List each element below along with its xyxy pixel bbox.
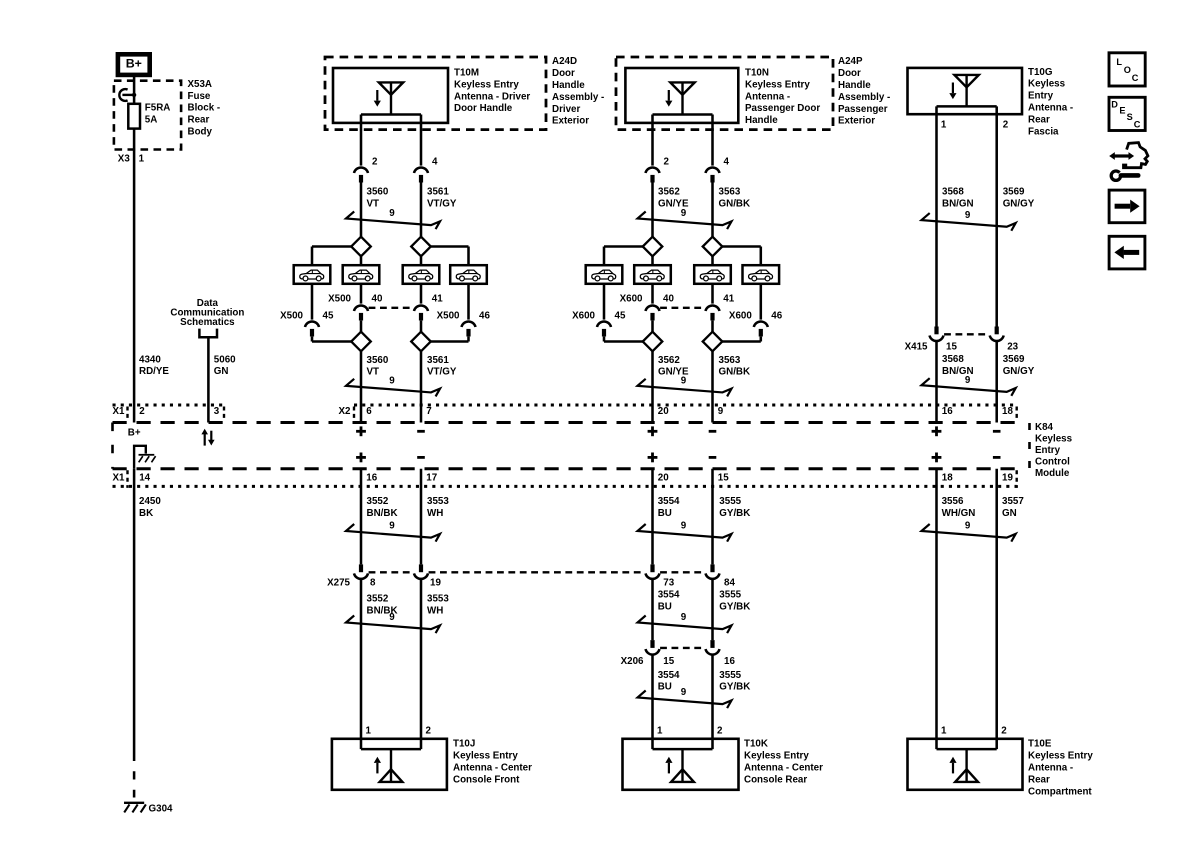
svg-text:X500: X500 <box>328 294 351 305</box>
terminal pin B <box>706 167 720 173</box>
dashed enclosure A24P door handle assembly passenger <box>616 57 833 130</box>
svg-text:GN/BK: GN/BK <box>719 367 751 378</box>
svg-text:9: 9 <box>965 375 971 386</box>
twisted pair mid 3554/3555 <box>638 616 732 634</box>
antenna box outline <box>625 68 738 123</box>
svg-text:4: 4 <box>432 157 438 168</box>
wire antenna pin A <box>360 115 363 166</box>
svg-text:GN/GY: GN/GY <box>1003 199 1035 210</box>
svg-text:X206: X206 <box>621 656 644 667</box>
svg-text:3553: 3553 <box>427 496 449 507</box>
svg-text:1: 1 <box>366 725 372 736</box>
svg-text:3560: 3560 <box>367 355 389 366</box>
module internal ground <box>134 446 146 469</box>
svg-text:Door Handle: Door Handle <box>454 103 513 114</box>
svg-text:WH: WH <box>427 606 443 617</box>
X415 pin 15 terminal <box>934 327 938 335</box>
X415 mate dashed link <box>944 333 989 335</box>
svg-text:46: 46 <box>479 311 490 322</box>
body style box 2 <box>343 265 380 284</box>
polarity labels band-2 <box>356 456 366 459</box>
T10K antenna box <box>623 739 739 790</box>
svg-text:F5RA: F5RA <box>145 103 171 114</box>
svg-text:Keyless Entry: Keyless Entry <box>744 751 809 762</box>
svg-text:84: 84 <box>724 577 735 588</box>
dashed enclosure A24D door handle assembly driver <box>325 57 546 130</box>
svg-text:Module: Module <box>1035 468 1070 479</box>
svg-text:9: 9 <box>718 406 724 417</box>
svg-text:3562: 3562 <box>658 186 680 197</box>
svg-text:T10K: T10K <box>744 739 768 750</box>
svg-text:3568: 3568 <box>942 187 964 198</box>
svg-text:19: 19 <box>430 577 441 588</box>
svg-text:X275: X275 <box>327 577 350 588</box>
T10J antenna symbol <box>390 749 392 782</box>
svg-text:X600: X600 <box>572 311 595 322</box>
inline connector X500 pin 40 <box>354 305 368 311</box>
variant splice diamond B bottom <box>411 332 431 352</box>
svg-text:Driver: Driver <box>552 104 581 115</box>
svg-text:4340: 4340 <box>139 354 161 365</box>
svg-text:Schematics: Schematics <box>180 317 235 328</box>
svg-text:VT: VT <box>367 367 380 378</box>
wires 3552/3553 from module <box>360 469 363 565</box>
wires to X206 <box>651 580 654 641</box>
twisted pair lower 3568/3569 <box>922 378 1016 396</box>
svg-text:40: 40 <box>372 294 383 305</box>
variant splice diamond A top <box>351 237 371 257</box>
svg-text:3562: 3562 <box>658 355 680 366</box>
connector mate dashed link <box>369 307 414 309</box>
svg-text:GN/BK: GN/BK <box>719 198 751 209</box>
K84 module connector band lower dotted <box>113 485 1017 488</box>
svg-text:2: 2 <box>1003 119 1009 130</box>
svg-text:X2: X2 <box>339 406 352 417</box>
svg-text:Entry: Entry <box>1028 91 1054 102</box>
svg-text:2: 2 <box>426 725 432 736</box>
svg-text:Console Rear: Console Rear <box>744 774 807 785</box>
svg-text:Antenna - Center: Antenna - Center <box>453 763 532 774</box>
svg-text:45: 45 <box>615 311 626 322</box>
fuse block X53A dashed box <box>114 81 181 150</box>
svg-text:X600: X600 <box>620 294 643 305</box>
T10E antenna symbol <box>965 749 967 782</box>
svg-text:T10E: T10E <box>1028 739 1052 750</box>
wrench icon <box>1111 169 1140 180</box>
K84 module left edge <box>111 423 114 469</box>
svg-text:9: 9 <box>389 521 395 532</box>
svg-text:Door: Door <box>552 68 575 79</box>
svg-text:8: 8 <box>370 577 376 588</box>
svg-text:T10N: T10N <box>745 68 769 79</box>
svg-text:GY/BK: GY/BK <box>719 682 750 693</box>
svg-text:2: 2 <box>664 157 670 168</box>
svg-text:Antenna -: Antenna - <box>745 91 790 102</box>
svg-text:BU: BU <box>658 508 672 519</box>
svg-text:BU: BU <box>658 602 672 613</box>
svg-text:VT: VT <box>367 198 380 209</box>
svg-text:3563: 3563 <box>719 186 741 197</box>
svg-text:T10G: T10G <box>1028 67 1053 78</box>
svg-text:B+: B+ <box>126 57 142 71</box>
inline connector X275 pin 19 <box>419 564 423 572</box>
T10E connector pocket <box>937 748 997 751</box>
twisted pair 3568/3569 <box>922 213 1016 231</box>
K84 module lower edge dashed <box>113 467 1017 470</box>
svg-text:3: 3 <box>214 406 220 417</box>
body style box 1 <box>586 265 623 284</box>
svg-text:D: D <box>1111 99 1118 109</box>
svg-text:Rear: Rear <box>1028 774 1050 785</box>
wire 2450 BK <box>133 469 136 761</box>
svg-text:3554: 3554 <box>658 590 680 601</box>
antenna box outline <box>908 68 1023 114</box>
svg-text:9: 9 <box>389 612 395 623</box>
svg-text:BN/BK: BN/BK <box>367 508 398 519</box>
svg-text:16: 16 <box>724 656 735 667</box>
wire B+ to fuse <box>133 75 136 104</box>
svg-text:Antenna -: Antenna - <box>1028 763 1073 774</box>
svg-text:GN/GY: GN/GY <box>1003 366 1035 377</box>
body style box 4 <box>450 265 487 284</box>
body style box 3 <box>403 265 440 284</box>
svg-text:Antenna -: Antenna - <box>1028 103 1073 114</box>
svg-text:A24P: A24P <box>838 56 863 67</box>
svg-text:4: 4 <box>724 157 730 168</box>
antenna connector pocket <box>361 113 421 116</box>
svg-text:L: L <box>1116 57 1122 67</box>
svg-text:WH/GN: WH/GN <box>942 508 976 519</box>
K84 label edge dashes <box>1028 423 1031 469</box>
svg-text:20: 20 <box>658 473 669 484</box>
connector mate dashed link <box>660 307 705 309</box>
svg-text:15: 15 <box>663 656 674 667</box>
svg-text:9: 9 <box>965 521 971 532</box>
polarity labels band-1 <box>356 430 366 433</box>
svg-text:14: 14 <box>139 473 150 484</box>
svg-text:G304: G304 <box>149 803 174 814</box>
antenna box outline <box>333 68 448 123</box>
K84 module connector band upper dotted <box>113 404 225 407</box>
svg-text:C: C <box>1134 119 1141 129</box>
antenna symbol <box>670 82 694 94</box>
svg-text:3555: 3555 <box>719 670 741 681</box>
svg-text:3560: 3560 <box>367 186 389 197</box>
svg-text:15: 15 <box>718 473 729 484</box>
svg-text:S: S <box>1127 112 1133 122</box>
svg-text:3561: 3561 <box>427 186 449 197</box>
wires to control module <box>360 351 363 422</box>
svg-text:9: 9 <box>681 612 687 623</box>
svg-text:Keyless Entry: Keyless Entry <box>454 79 519 90</box>
wires from X415 to module <box>935 342 938 423</box>
svg-text:Block -: Block - <box>188 103 221 114</box>
svg-text:3561: 3561 <box>427 355 449 366</box>
wire antenna pin B <box>711 115 714 166</box>
inline connector X275 pin 8 <box>359 564 363 572</box>
svg-text:3556: 3556 <box>942 496 964 507</box>
svg-text:E: E <box>1119 106 1125 116</box>
wires rejoining splice diamonds <box>651 321 654 332</box>
svg-text:18: 18 <box>942 473 953 484</box>
svg-text:Antenna - Center: Antenna - Center <box>744 763 823 774</box>
svg-text:BN/GN: BN/GN <box>942 199 974 210</box>
svg-text:Rear: Rear <box>188 115 210 126</box>
svg-text:41: 41 <box>432 294 443 305</box>
T10J antenna box <box>332 739 447 790</box>
svg-text:VT/GY: VT/GY <box>427 367 457 378</box>
svg-text:Assembly -: Assembly - <box>838 92 890 103</box>
svg-text:X500: X500 <box>437 311 460 322</box>
svg-text:Console Front: Console Front <box>453 774 520 785</box>
battery feed symbol B+ <box>118 54 150 75</box>
twisted pair lower 3554/3555 <box>638 691 732 709</box>
svg-text:Exterior: Exterior <box>552 116 589 127</box>
wires rejoining splice diamonds <box>360 321 363 332</box>
inline connector X600 pin 41 <box>706 305 720 311</box>
svg-text:3554: 3554 <box>658 496 680 507</box>
body style box 1 <box>294 265 331 284</box>
previous page button <box>1109 236 1145 269</box>
wire to splice diamonds <box>360 183 363 237</box>
svg-text:GN: GN <box>1002 508 1017 519</box>
wire to splice diamonds <box>651 183 654 237</box>
svg-text:BK: BK <box>139 508 153 519</box>
svg-text:VT/GY: VT/GY <box>427 198 457 209</box>
svg-text:2: 2 <box>717 725 723 736</box>
off-page bracket <box>199 329 217 338</box>
svg-text:Keyless Entry: Keyless Entry <box>745 79 810 90</box>
svg-text:X500: X500 <box>280 311 303 322</box>
X206 mate dashed link <box>660 647 705 649</box>
svg-text:17: 17 <box>426 473 437 484</box>
svg-text:3563: 3563 <box>719 355 741 366</box>
svg-text:9: 9 <box>681 521 687 532</box>
svg-text:Control: Control <box>1035 456 1070 467</box>
svg-text:9: 9 <box>965 210 971 221</box>
svg-text:45: 45 <box>323 311 334 322</box>
svg-text:Handle: Handle <box>838 80 871 91</box>
X415 pin 23 terminal <box>995 327 999 335</box>
svg-text:73: 73 <box>663 577 674 588</box>
svg-text:GN: GN <box>214 366 229 377</box>
ground wire dashed segment <box>133 771 136 797</box>
svg-text:Compartment: Compartment <box>1028 786 1092 797</box>
antenna symbol <box>379 82 403 94</box>
svg-text:Antenna - Driver: Antenna - Driver <box>454 91 530 102</box>
svg-text:Handle: Handle <box>745 115 778 126</box>
svg-text:X3: X3 <box>118 154 131 165</box>
svg-text:Body: Body <box>188 127 213 138</box>
svg-text:Assembly -: Assembly - <box>552 92 604 103</box>
T10K antenna symbol <box>681 749 683 782</box>
svg-text:3555: 3555 <box>719 496 741 507</box>
svg-text:Fascia: Fascia <box>1028 126 1059 137</box>
inline connector X600 pin 46 <box>754 321 768 327</box>
svg-text:46: 46 <box>771 311 782 322</box>
svg-text:A24D: A24D <box>552 56 577 67</box>
svg-text:19: 19 <box>1002 473 1013 484</box>
variant splice diamond A top <box>643 237 663 257</box>
svg-text:5060: 5060 <box>214 354 236 365</box>
svg-text:T10M: T10M <box>454 68 479 79</box>
wires from body boxes <box>651 284 654 304</box>
band separators <box>126 407 128 422</box>
svg-text:3568: 3568 <box>942 354 964 365</box>
svg-text:7: 7 <box>426 406 432 417</box>
svg-text:X1: X1 <box>113 406 126 417</box>
svg-text:X53A: X53A <box>188 79 213 90</box>
svg-text:1: 1 <box>139 154 145 165</box>
svg-text:18: 18 <box>1002 406 1013 417</box>
branch wires to body-style boxes <box>604 245 643 248</box>
svg-text:Handle: Handle <box>552 80 585 91</box>
twisted pair 3552/3553 <box>346 524 440 542</box>
svg-text:3557: 3557 <box>1002 496 1024 507</box>
svg-text:X600: X600 <box>729 311 752 322</box>
svg-text:9: 9 <box>389 376 395 387</box>
terminal pin A <box>354 167 368 173</box>
svg-text:1: 1 <box>941 725 947 736</box>
svg-text:9: 9 <box>681 687 687 698</box>
wire antenna pin 2 <box>995 106 998 326</box>
wire antenna pin A <box>651 115 654 166</box>
wires to control module <box>651 351 654 422</box>
svg-text:BU: BU <box>658 682 672 693</box>
svg-text:15: 15 <box>946 342 957 353</box>
svg-text:3569: 3569 <box>1003 354 1025 365</box>
twisted pair lower 3562/3563 <box>638 379 732 397</box>
svg-text:Passenger: Passenger <box>838 104 888 115</box>
svg-text:Fuse: Fuse <box>188 91 211 102</box>
svg-text:X415: X415 <box>905 342 928 353</box>
svg-text:16: 16 <box>942 406 953 417</box>
fuse F5RA 5A <box>128 104 140 129</box>
svg-text:23: 23 <box>1007 342 1018 353</box>
LOC button <box>1109 53 1145 86</box>
svg-text:16: 16 <box>366 473 377 484</box>
svg-text:GY/BK: GY/BK <box>719 602 750 613</box>
inline connector X500 pin 46 <box>462 321 476 327</box>
variant splice diamond A bottom <box>643 332 663 352</box>
body style box 3 <box>694 265 731 284</box>
variant splice diamond B bottom <box>703 332 723 352</box>
wire antenna pin 1 <box>935 106 938 326</box>
body style box 2 <box>634 265 671 284</box>
svg-text:3553: 3553 <box>427 594 449 605</box>
svg-text:RD/YE: RD/YE <box>139 366 169 377</box>
svg-text:Entry: Entry <box>1035 445 1061 456</box>
variant splice diamond A bottom <box>351 332 371 352</box>
svg-text:3552: 3552 <box>367 594 389 605</box>
svg-text:41: 41 <box>723 294 734 305</box>
svg-text:1: 1 <box>657 725 663 736</box>
twisted pair lower 3560/3561 <box>346 379 440 397</box>
terminal pin A <box>646 167 660 173</box>
svg-text:1: 1 <box>941 119 947 130</box>
twisted pair 3562/3563 <box>638 212 732 230</box>
svg-text:Exterior: Exterior <box>838 116 875 127</box>
K84 module upper edge dashed <box>113 421 1017 424</box>
svg-text:3569: 3569 <box>1003 187 1025 198</box>
inline connector X275 pin 73 <box>650 564 654 572</box>
wire 4340 RD/YE <box>133 129 136 423</box>
ground G304 <box>124 802 144 804</box>
wires from body boxes <box>360 284 363 304</box>
inline connector X500 pin 45 <box>305 321 319 327</box>
antenna symbol <box>954 75 978 87</box>
branch wires to body-style boxes <box>312 245 351 248</box>
wires 3554/3555 from module <box>651 469 654 565</box>
svg-text:K84: K84 <box>1035 422 1054 433</box>
terminal pin B <box>414 167 428 173</box>
svg-text:2450: 2450 <box>139 496 161 507</box>
body style box 4 <box>743 265 780 284</box>
svg-text:9: 9 <box>389 208 395 219</box>
inline connector X600 pin 40 <box>646 305 660 311</box>
svg-text:Passenger Door: Passenger Door <box>745 103 820 114</box>
svg-text:3552: 3552 <box>367 496 389 507</box>
svg-text:Rear: Rear <box>1028 114 1050 125</box>
svg-text:X1: X1 <box>113 473 126 484</box>
svg-text:T10J: T10J <box>453 739 475 750</box>
antenna connector pocket <box>653 113 713 116</box>
svg-text:9: 9 <box>681 376 687 387</box>
wires 3556/3557 from module <box>935 469 938 749</box>
bidirectional arrow <box>1109 152 1134 160</box>
svg-text:40: 40 <box>663 294 674 305</box>
svg-text:2: 2 <box>372 157 378 168</box>
DESC button <box>1109 97 1145 130</box>
svg-text:B+: B+ <box>128 428 141 439</box>
svg-text:Keyless: Keyless <box>1035 433 1073 444</box>
inline connector X206 pin 15 <box>650 640 654 648</box>
variant splice diamond B top <box>411 237 431 257</box>
antenna connector pocket <box>937 105 997 108</box>
variant splice diamond B top <box>703 237 723 257</box>
svg-text:Keyless Entry: Keyless Entry <box>453 751 518 762</box>
svg-text:C: C <box>1132 73 1139 83</box>
T10J connector pocket <box>361 748 421 751</box>
svg-text:2: 2 <box>139 406 145 417</box>
svg-text:O: O <box>1124 65 1131 75</box>
wire 5060 GN <box>207 337 210 422</box>
wires to T10J <box>360 580 363 750</box>
wires to T10K <box>651 655 654 749</box>
svg-text:2: 2 <box>1001 725 1007 736</box>
svg-text:6: 6 <box>366 406 372 417</box>
module data arrows <box>204 433 206 445</box>
vehicle diagnostic icon <box>1124 143 1148 168</box>
wire antenna pin B <box>420 115 423 166</box>
T10E antenna box <box>908 739 1023 790</box>
T10K connector pocket <box>653 748 713 751</box>
svg-text:3555: 3555 <box>719 590 741 601</box>
svg-text:5A: 5A <box>145 114 158 125</box>
twisted pair 3554/3555 <box>638 524 732 542</box>
inline connector X600 pin 45 <box>597 321 611 327</box>
fuse block terminal arc <box>119 89 127 101</box>
svg-text:Keyless: Keyless <box>1028 79 1066 90</box>
twisted pair 3560/3561 <box>346 212 440 230</box>
inline connector X206 pin 16 <box>710 640 714 648</box>
svg-text:Keyless Entry: Keyless Entry <box>1028 751 1093 762</box>
svg-text:20: 20 <box>658 406 669 417</box>
twisted pair lower 3552/3553 <box>346 616 440 634</box>
svg-text:GY/BK: GY/BK <box>719 508 750 519</box>
svg-text:Door: Door <box>838 68 861 79</box>
twisted pair 3556/3557 <box>922 524 1016 542</box>
